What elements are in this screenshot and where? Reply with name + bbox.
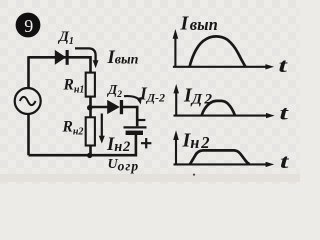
resistor Rn1 [86,73,95,97]
svg-text:Iвып: Iвып [180,13,218,35]
paper speck [193,174,195,176]
graph3 y-axis [175,139,177,164]
graph2 curve Id2 small hump [202,101,235,116]
wire Rn2 to bottom rail [89,146,92,156]
arrow In2 [101,114,103,138]
plus sign [141,138,151,148]
graph1 x-axis [173,66,266,68]
graph3 curve In2 trapezoid [190,150,250,164]
wire bottom rail [29,134,136,155]
svg-text:t: t [279,54,288,77]
wire left rail lower [27,114,30,155]
graph1 y-axis [174,38,176,67]
wire between resistors [89,97,92,118]
wire branch to D2 [90,106,108,109]
graph2 y-axis [175,92,177,116]
wire D2 to capacitor corner [123,107,138,126]
graph3 x-axis [174,163,267,165]
arrow Id-2 (hook) [124,96,139,99]
node junction 2 [87,153,92,158]
diode D2 [107,100,123,114]
graph2 x-axis [174,115,267,117]
arrow Ivyp (hook) [75,48,96,61]
figure badge 9 [16,13,41,38]
graph1 curve Ivyp half-sine [190,36,246,66]
capacitor C (limiter), minus sign [138,119,145,121]
svg-text:9: 9 [24,16,33,36]
svg-text:t: t [280,102,289,125]
diode D1 [55,50,69,65]
capacitor bottom plate (thick) [126,131,143,135]
resistor Rn2 [86,117,95,145]
svg-text:Iн2: Iн2 [182,130,212,152]
svg-text:Uогр: Uогр [108,157,140,173]
node junction 1 [87,105,92,110]
svg-text:t: t [280,150,289,173]
background paper [0,0,300,184]
AC source G1 [15,88,41,114]
wire left rail upper [27,56,30,88]
wire top from source to D1 and corner down [29,57,91,72]
capacitor top plate [124,126,147,128]
